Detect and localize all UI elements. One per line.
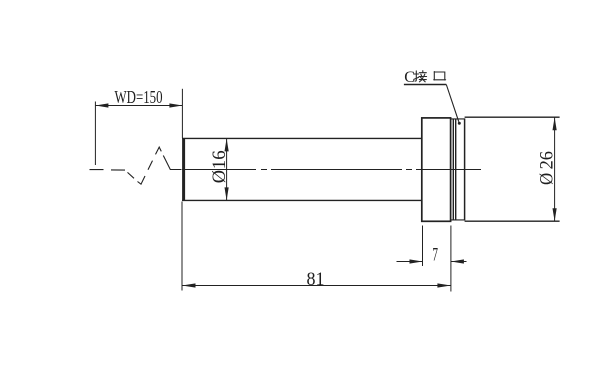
svg-text:16: 16 xyxy=(209,150,230,169)
svg-text:WD=150: WD=150 xyxy=(115,87,163,107)
svg-text:Ø: Ø xyxy=(209,170,230,183)
svg-text:7: 7 xyxy=(432,246,438,266)
svg-text:Ø: Ø xyxy=(537,173,558,185)
svg-text:26: 26 xyxy=(537,151,558,169)
svg-text:C: C xyxy=(404,69,415,86)
svg-text:81: 81 xyxy=(307,269,325,290)
